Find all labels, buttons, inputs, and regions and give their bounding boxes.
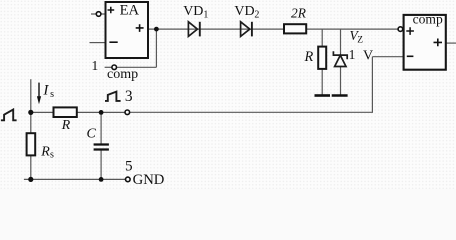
zener diode VZ [333,51,347,59]
junction dot left node [28,110,33,115]
wire drop to resistor R (divider) [321,29,323,46]
wire stub terminal 1 [105,66,113,68]
capacitor C [94,145,109,150]
wire top rail from EA output to comparator + input [148,28,398,30]
svg-text:R: R [40,144,50,159]
junction dot EA output node [154,27,159,32]
svg-text:GND: GND [133,172,165,188]
wire bottom ground rail [24,178,126,180]
wire middle row through R [31,111,125,113]
svg-text:1: 1 [203,9,208,20]
ground under zener [332,94,348,97]
EA output plus sign [136,24,144,32]
svg-text:3: 3 [125,88,133,105]
diode VD1 [188,22,197,37]
wire EA output vertical to comp terminal row [155,29,157,67]
resistor R vertical (divider) [318,47,326,69]
wire comparator output [446,42,456,44]
svg-text:comp: comp [413,12,443,27]
wire feedback vertical right [371,57,373,113]
wire comp terminal 1 horizontal [117,66,156,68]
svg-text:Z: Z [357,36,363,46]
svg-text:1: 1 [349,47,356,62]
svg-text:1: 1 [92,58,99,73]
terminal circle node 3 [125,110,130,115]
svg-text:s: s [50,89,54,100]
svg-text:EA: EA [120,3,140,19]
terminal circle EA noninverting input [96,12,101,17]
svg-text:2: 2 [254,9,259,20]
wire capacitor branch upper [100,112,102,143]
wire resistor R to ground [321,69,323,95]
wire capacitor branch lower [100,150,102,179]
comp output plus sign [434,39,443,47]
wire zener to ground [340,67,342,95]
wire drop to zener VZ [340,29,342,54]
wire comparator inverting input stub [372,56,403,58]
resistor R horizontal [54,107,77,117]
svg-text:V: V [363,49,373,64]
svg-text:I: I [42,83,49,99]
wire stub EA noninverting input [91,13,106,15]
svg-text:comp: comp [107,67,138,82]
sawtooth waveform symbol at node 3 [105,92,121,101]
EA noninverting input plus sign [108,7,115,14]
comp noninverting plus sign [406,27,414,35]
EA inverting input minus sign [109,41,117,43]
svg-text:R: R [304,49,314,65]
resistor 2R [284,24,306,33]
current arrow Is [38,83,40,97]
svg-text:VD: VD [234,4,254,19]
sawtooth waveform symbol at current input [1,110,17,121]
svg-text:VD: VD [183,4,203,19]
terminal circle comp noninverting input [398,27,403,32]
svg-text:C: C [87,127,97,142]
diode VD2 [241,22,250,37]
ground under R [315,94,331,97]
comp inverting minus sign [407,55,414,57]
wire node 3 row to feedback [130,111,373,113]
svg-text:2R: 2R [291,6,306,21]
svg-text:s: s [50,150,54,161]
wire left vertical Is branch [30,79,32,133]
svg-text:R: R [61,117,71,132]
junction dot bottom left [28,177,33,182]
svg-text:5: 5 [125,157,133,174]
resistor Rs vertical [27,133,36,155]
wire Rs to bottom rail [30,155,32,179]
terminal circle GND [126,177,131,182]
op-amp EA box U1 [106,2,149,58]
junction dot capacitor node [99,110,104,115]
junction dot bottom capacitor [99,177,104,182]
terminal circle comp pin 1 [112,65,117,70]
comparator box comp [404,15,446,70]
wire stub EA inverting input [90,42,106,44]
